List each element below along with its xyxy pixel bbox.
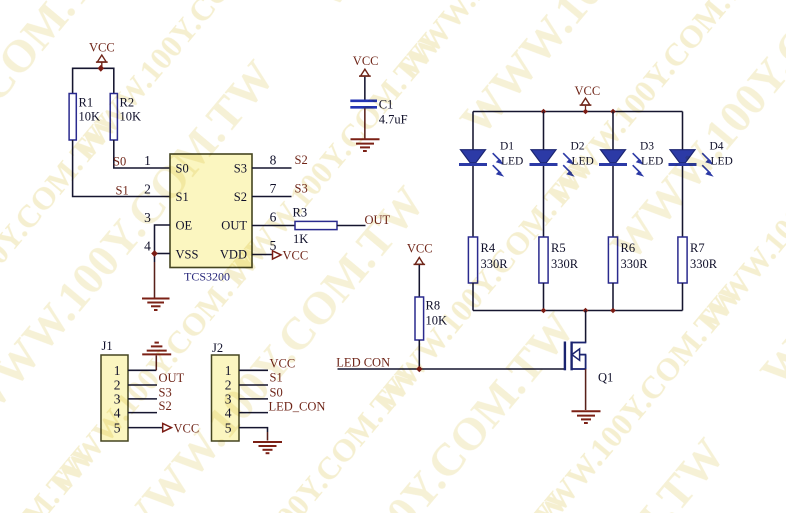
wire J1 pin4 xyxy=(128,412,157,414)
wire OE/VSS to ground xyxy=(155,225,171,298)
ground (Q1) xyxy=(572,411,601,423)
junction at VCC/R1/R2 xyxy=(98,65,105,72)
wire J2 pin1 xyxy=(239,369,268,371)
wire Q1 source to ground xyxy=(585,369,587,410)
LED D4 xyxy=(669,112,733,238)
wire J1 pin5 xyxy=(128,427,163,429)
resistor R4 xyxy=(468,237,508,311)
LED D3 xyxy=(599,112,663,238)
ground (J1, inverted) xyxy=(142,343,171,355)
wire VCC rail to R1/R2 xyxy=(73,68,114,93)
ground (TCS3200) xyxy=(142,299,170,311)
wire C1 to ground xyxy=(364,109,366,139)
ground (J2) xyxy=(253,442,282,453)
wire VCC to C1 xyxy=(364,77,366,100)
junction top rail D2 xyxy=(541,109,547,115)
LED D2 xyxy=(530,112,594,238)
wire LED top rail xyxy=(473,111,683,113)
wire pin8 xyxy=(252,167,292,169)
wire J2 pin4 xyxy=(239,412,268,414)
wire J1 pin2 xyxy=(128,384,157,386)
junction bottom rail R5 xyxy=(541,308,547,314)
wire J2 pin2 xyxy=(239,384,268,386)
wire R2 to IC pin1 xyxy=(114,140,170,168)
power VCC top-left xyxy=(89,41,115,69)
wire R1 to IC pin2 xyxy=(73,140,170,197)
IC U1 TCS3200 xyxy=(170,154,252,284)
resistor R8 xyxy=(415,297,447,340)
resistor R6 xyxy=(608,237,648,311)
wire pin6 to R3 xyxy=(252,225,295,227)
power VCC at C1 xyxy=(353,54,379,76)
junction top rail D3 xyxy=(610,109,616,115)
resistor R2 xyxy=(110,94,141,141)
wire LED CON to gate xyxy=(338,368,565,370)
wire J2 pin5 to ground xyxy=(239,428,268,432)
junction LED CON / R8 xyxy=(416,366,422,372)
power VCC at LED rail xyxy=(575,84,601,112)
resistor R7 xyxy=(678,237,718,311)
transistor Q1 xyxy=(565,311,613,385)
wire J2 pin3 xyxy=(239,398,268,400)
wire pin5 VDD xyxy=(252,254,273,256)
junction bottom rail Q1 xyxy=(583,308,589,314)
wire J1 pin1 xyxy=(128,369,156,371)
junction at VSS xyxy=(151,250,158,257)
LED D1 xyxy=(459,112,523,238)
wire R8 to LED CON xyxy=(418,340,420,369)
wire pin7 xyxy=(252,196,292,198)
wire VCC to R8 xyxy=(418,265,420,297)
ground (C1) xyxy=(351,139,380,151)
junction top rail VCC xyxy=(583,109,589,115)
resistor R5 xyxy=(539,237,579,311)
connector J2 xyxy=(212,341,240,441)
power VCC at VDD pin xyxy=(273,249,309,263)
wire LED bottom rail xyxy=(473,310,683,312)
capacitor C1 xyxy=(350,98,407,127)
junction bottom rail R6 xyxy=(610,308,616,314)
power VCC at R8 xyxy=(407,242,433,265)
resistor R1 xyxy=(69,94,100,141)
resistor R3 xyxy=(293,206,338,247)
wire J1 pin3 xyxy=(128,398,157,400)
connector J1 xyxy=(101,339,128,441)
power VCC at J1 pin5 xyxy=(163,422,200,436)
wire R3 to OUT xyxy=(337,225,366,227)
